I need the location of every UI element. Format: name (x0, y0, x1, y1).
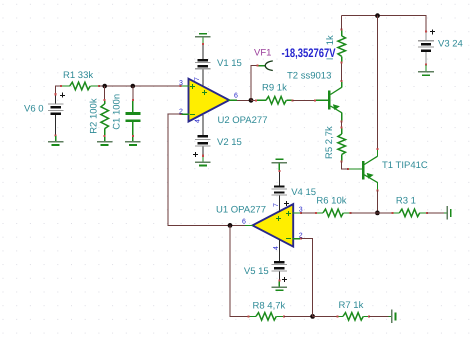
resistor R6 (315, 209, 352, 217)
op-amp U2 OPA277 (180, 79, 237, 135)
svg-text:R1 33k: R1 33k (63, 70, 93, 81)
wire T1 emitter down to node (376, 191, 378, 213)
svg-text:7: 7 (273, 203, 280, 207)
battery V3 (418, 30, 435, 66)
ground under V3 (418, 65, 434, 76)
svg-text:R3 1: R3 1 (396, 196, 416, 207)
svg-text:V2 15: V2 15 (217, 137, 242, 148)
ground under R2 (97, 141, 113, 146)
resistor R7 (336, 313, 370, 321)
wire node to R7 (313, 315, 338, 317)
svg-text:R2 100k: R2 100k (88, 98, 99, 134)
wire R4 top to rail (341, 16, 343, 30)
svg-text:T2 ss9013: T2 ss9013 (287, 71, 331, 82)
svg-text:V4 15: V4 15 (291, 187, 316, 198)
wire R6 to node (351, 212, 378, 214)
ground above V1 (inverted) (195, 33, 211, 44)
voltage source V6 (48, 93, 65, 137)
resistor R3 (391, 209, 428, 217)
resistor R1 (60, 82, 100, 90)
wire U1 output to node (230, 224, 245, 226)
op-amp U1 OPA277 (245, 204, 302, 261)
node junction R2 (102, 84, 107, 89)
svg-text:4: 4 (195, 119, 202, 123)
node junction C1 (131, 84, 136, 89)
svg-text:T1 TIP41C: T1 TIP41C (382, 160, 428, 171)
voltage probe VF1 (257, 61, 273, 71)
battery V1 (195, 43, 211, 85)
resistor R2 (101, 86, 109, 141)
svg-text:3: 3 (179, 80, 183, 87)
svg-text:R9 1k: R9 1k (262, 83, 287, 94)
wire node to R3 (377, 212, 392, 214)
wire R9 to T2 base (293, 99, 316, 101)
wire U2 output to node (237, 99, 251, 101)
svg-text:V3 24: V3 24 (438, 39, 463, 50)
ground right of R3 (rotated) (444, 206, 452, 220)
wire U1 pin3 to R6 (301, 212, 316, 214)
wire R7 to ground (369, 315, 388, 317)
wire rail down to T1 collector (377, 16, 379, 149)
resistor R9 (255, 97, 294, 105)
battery V5 (272, 261, 288, 287)
svg-text:6: 6 (234, 93, 238, 100)
svg-text:V6 0: V6 0 (24, 104, 44, 115)
node output U2 (249, 98, 254, 103)
svg-text:R7 1k: R7 1k (339, 300, 364, 311)
ground under V5 (272, 286, 288, 291)
wire R5 to T1 base (342, 161, 348, 169)
wire node down to bottom row (230, 225, 249, 316)
svg-text:3: 3 (299, 206, 303, 213)
node top rail (375, 13, 380, 18)
svg-text:C1 100n: C1 100n (111, 94, 122, 130)
battery V4 (272, 170, 290, 211)
wire R8 to node (284, 315, 313, 317)
resistor R8 (248, 313, 285, 321)
svg-text:R5 2,7k: R5 2,7k (324, 126, 335, 159)
node feedback U1 (228, 223, 233, 228)
ground under V2 (195, 162, 211, 167)
svg-text:U1 OPA277: U1 OPA277 (216, 205, 266, 216)
wire V6 top to R1 (56, 86, 61, 94)
ground above V4 (inverted) (272, 158, 288, 170)
wire T2 emitter to R5 (341, 121, 343, 127)
battery V2 (193, 135, 211, 162)
svg-text:7: 7 (194, 77, 201, 81)
transistor T2 ss9013 (314, 80, 343, 123)
svg-text:VF1: VF1 (254, 48, 271, 59)
wire U1 pin2 down to node (301, 239, 313, 317)
svg-text:6: 6 (242, 219, 246, 226)
transistor T1 TIP41C (347, 148, 378, 192)
wire R1 to opamp U2 pin3 (99, 85, 181, 87)
node R8 R7 (310, 314, 315, 319)
svg-text:R8 4,7k: R8 4,7k (253, 301, 286, 312)
wire U2 pin2 feedback down-left (168, 114, 230, 225)
wire T2 collector to R4 (341, 63, 343, 81)
ground under V6 (48, 136, 64, 146)
svg-text:R6 10k: R6 10k (316, 196, 346, 207)
svg-text:U2 OPA277: U2 OPA277 (218, 115, 268, 126)
node emitter R6 R3 (375, 211, 380, 216)
wire top rail (342, 16, 426, 32)
svg-text:4: 4 (273, 246, 280, 250)
wire node up to probe VF1 (251, 66, 259, 101)
capacitor C1 (125, 86, 140, 141)
svg-text:V5 15: V5 15 (244, 266, 269, 277)
ground under C1 (125, 141, 141, 146)
svg-text:V1 15: V1 15 (217, 58, 242, 69)
meter readout background (281, 47, 336, 59)
resistor R4 (338, 29, 346, 64)
svg-text:-18,352767V: -18,352767V (282, 46, 337, 60)
resistor R5 (338, 127, 346, 163)
wire node to R9 (251, 99, 256, 101)
ground right of R7 (rotated) (389, 310, 397, 324)
wire R3 to ground (427, 212, 444, 214)
